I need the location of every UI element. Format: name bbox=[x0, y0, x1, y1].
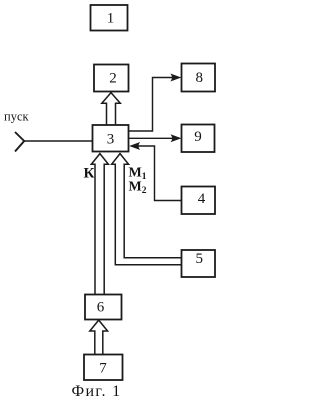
svg-text:1: 1 bbox=[107, 11, 115, 27]
svg-text:пуск: пуск bbox=[4, 110, 29, 124]
svg-text:8: 8 bbox=[195, 70, 203, 86]
svg-text:5: 5 bbox=[195, 251, 203, 267]
svg-text:3: 3 bbox=[107, 131, 115, 147]
svg-text:Фиг. 1: Фиг. 1 bbox=[71, 383, 121, 400]
svg-text:6: 6 bbox=[97, 300, 105, 316]
svg-text:4: 4 bbox=[198, 191, 206, 207]
svg-text:7: 7 bbox=[99, 360, 107, 376]
svg-text:К: К bbox=[84, 166, 95, 182]
svg-text:2: 2 bbox=[109, 71, 117, 87]
svg-text:9: 9 bbox=[194, 129, 202, 145]
